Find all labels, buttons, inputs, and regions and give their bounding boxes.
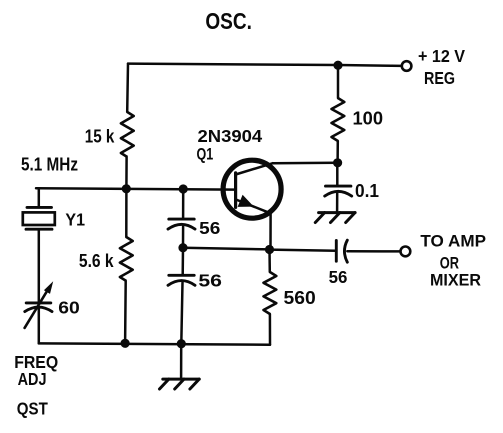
label 100	[353, 108, 384, 129]
wire second 56 cap upper lead	[181, 248, 184, 275]
wire 5.6k upper lead	[125, 189, 128, 237]
wire 15k lower lead to base node	[125, 157, 128, 189]
svg-text:2N3904: 2N3904	[198, 126, 263, 146]
transistor Q1 2N3904	[223, 160, 281, 249]
wire mid row (56 caps node to emitter node)	[183, 248, 270, 250]
svg-text:56: 56	[329, 267, 348, 287]
label 60	[58, 298, 80, 318]
svg-text:MIXER: MIXER	[430, 271, 481, 290]
wire 100 upper lead from top rail	[337, 65, 340, 98]
svg-text:60: 60	[58, 298, 80, 318]
junction dot: node emitter	[265, 245, 274, 254]
wire second 56 cap lower lead to bottom rail	[181, 283, 182, 344]
label Q1	[197, 146, 214, 164]
junction dot: node base row / 15k-5.6k	[122, 184, 131, 193]
emitter arrow	[238, 195, 254, 207]
svg-text:56: 56	[198, 270, 222, 290]
junction dot: node collector	[333, 158, 342, 167]
junction dot: node base row / 56 cap	[179, 184, 188, 193]
variable capacitor 60 FREQ ADJ	[25, 303, 52, 312]
title OSC.	[205, 8, 252, 34]
junction dot: node supply/100	[333, 61, 342, 70]
terminal +12V REG	[402, 61, 412, 71]
wire first 56 cap lower lead to mid node	[182, 227, 185, 248]
junction dot: node bottom rail / 5.6k	[121, 339, 130, 348]
wire 5.6k lower lead to bottom rail	[124, 281, 127, 343]
svg-text:100: 100	[353, 108, 384, 129]
wire 0.1 cap lower lead to ground	[336, 192, 339, 213]
svg-text:15 k: 15 k	[85, 126, 115, 147]
label 56 coupling	[329, 267, 348, 287]
wire 0.1 cap upper lead	[336, 163, 339, 186]
label 5.6 k	[79, 250, 114, 271]
capacitor 56 (lower feedback)	[168, 275, 195, 285]
wire bottom ground rail	[39, 343, 270, 344]
wire 100 lower lead to collector node	[336, 141, 339, 163]
svg-text:TO AMP: TO AMP	[420, 232, 486, 251]
capacitor 56 (upper feedback)	[168, 219, 195, 229]
svg-text:0.1: 0.1	[355, 180, 379, 201]
ground under 0.1 cap	[315, 213, 355, 223]
svg-text:REG: REG	[424, 68, 455, 88]
wire variable cap to bottom rail corner	[38, 309, 41, 344]
crystal Y1 5.1 MHz	[23, 207, 55, 229]
resistor 15 k	[121, 112, 134, 157]
label 56 lower	[198, 270, 222, 290]
arrow of variable capacitor	[25, 292, 47, 328]
wire crystal top lead	[38, 188, 41, 207]
wire left branch upper lead (top rail to 15k)	[126, 64, 129, 112]
wire ground stub below bottom rail	[180, 344, 183, 379]
svg-text:560: 560	[284, 287, 316, 308]
label Y1	[65, 209, 85, 229]
capacitor 0.1 bypass	[325, 186, 352, 196]
junction dot: node between 56 caps	[178, 243, 187, 252]
wire 560 lower lead to bottom rail corner	[269, 314, 272, 345]
label 56 upper	[199, 218, 220, 238]
svg-text:+ 12 V: + 12 V	[418, 46, 465, 66]
svg-text:QST: QST	[17, 399, 48, 419]
resistor 560	[264, 272, 277, 314]
label 5.1 MHz	[21, 154, 78, 175]
resistor 100	[332, 98, 345, 141]
svg-text:ADJ: ADJ	[18, 369, 47, 389]
svg-text:Y1: Y1	[65, 209, 85, 229]
label 0.1	[355, 180, 379, 201]
label 560	[284, 287, 316, 308]
label 2N3904	[198, 126, 263, 146]
svg-text:56: 56	[199, 218, 220, 238]
wire crystal bottom lead to variable cap	[38, 229, 41, 303]
wire first 56 cap upper lead	[182, 189, 185, 219]
svg-text:Q1: Q1	[197, 146, 214, 164]
ground bottom rail	[160, 379, 200, 389]
wire emitter node to coupling cap	[270, 250, 336, 251]
capacitor 56 coupling (series output)	[336, 240, 347, 262]
wire collector node to Q1 collector	[273, 161, 338, 164]
terminal output to amp/mixer	[401, 247, 411, 257]
wire top supply rail	[128, 64, 402, 66]
wire coupling cap to output terminal	[347, 250, 400, 253]
label 15 k	[85, 126, 115, 147]
svg-text:5.6 k: 5.6 k	[79, 250, 114, 271]
svg-text:5.1 MHz: 5.1 MHz	[21, 154, 78, 175]
svg-text:OSC.: OSC.	[205, 8, 252, 34]
wire 560 upper lead from emitter node	[268, 250, 271, 272]
junction dot: node bottom rail / ground	[177, 339, 186, 348]
wire base row (crystal corner to Q1 base)	[36, 188, 235, 189]
resistor 5.6 k	[120, 237, 133, 281]
